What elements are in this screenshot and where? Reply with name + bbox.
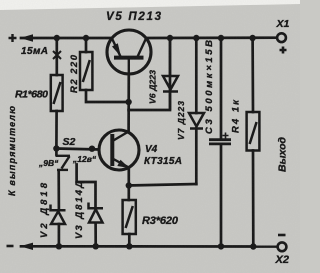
terminal X2 (278, 242, 287, 251)
capacitor C3 plates (209, 138, 231, 141)
transistor V5 circle (107, 30, 151, 74)
wire top rail left segment (21, 37, 112, 40)
junction dot emitter node (126, 182, 132, 188)
transistor V5 collector (138, 39, 146, 57)
junction dots top rail (54, 35, 60, 41)
wire bottom rail (21, 245, 277, 248)
resistor R3 (123, 200, 136, 234)
transistor V4 collector (113, 132, 129, 142)
junction dot V5 base / R2 (125, 99, 131, 105)
junction dot S2 left (53, 145, 59, 151)
resistor R4 (247, 112, 260, 151)
break mark x on R1 wire (53, 51, 61, 59)
wire R4 branch (251, 38, 254, 247)
wire branch to V6 (129, 38, 170, 110)
switch S2 blade diagonal (62, 156, 70, 168)
transistor V4 circle (99, 130, 139, 170)
zener V2 (51, 205, 66, 225)
terminal X1 (277, 33, 286, 42)
wire V2 branch (57, 171, 60, 247)
wire emitter node to R3 (127, 168, 130, 201)
wire top rail right segment (146, 36, 277, 39)
transistor V4 emitter with arrow (113, 159, 129, 168)
switch S2 bottom tick (57, 169, 68, 171)
wire R3 bottom to rail (128, 234, 131, 246)
junction dots bottom rail (56, 243, 62, 249)
white scan band at top (0, 0, 300, 10)
wire V5 base down to V4 collector (127, 74, 130, 132)
resistor R2 (80, 52, 92, 90)
input arrow + (top left) (20, 34, 33, 41)
resistor R1 (51, 75, 63, 111)
switch S2 top bar (56, 155, 71, 157)
transistor V5 base bar (114, 56, 144, 60)
transistor V4 base bar (110, 134, 114, 166)
minus sign bottom-left (7, 245, 14, 248)
wire V4 base (56, 149, 99, 150)
diode V6 (163, 38, 178, 110)
wire V7 to emitter node (129, 184, 197, 186)
wire S2 12v contact to V3 (77, 165, 96, 247)
X2 minus mark (278, 234, 286, 237)
input arrow - (bottom left) (20, 243, 33, 250)
wire C3 branch (220, 38, 223, 246)
junction dot S2 right (89, 146, 95, 152)
wire S2 stub (55, 149, 58, 155)
diode V7 (189, 113, 204, 129)
X1 plus mark (280, 47, 287, 54)
wire V7 branch vertical (195, 38, 198, 184)
transistor V5 emitter (arrow to bar) (112, 39, 121, 57)
plus sign top-left (9, 34, 17, 42)
zener V3 (89, 203, 104, 223)
transistor V5 base lead (128, 58, 130, 74)
capacitor C3 plus mark (223, 133, 229, 139)
wire R1 branch vertical (55, 38, 58, 149)
wire R2 branch (86, 38, 129, 102)
